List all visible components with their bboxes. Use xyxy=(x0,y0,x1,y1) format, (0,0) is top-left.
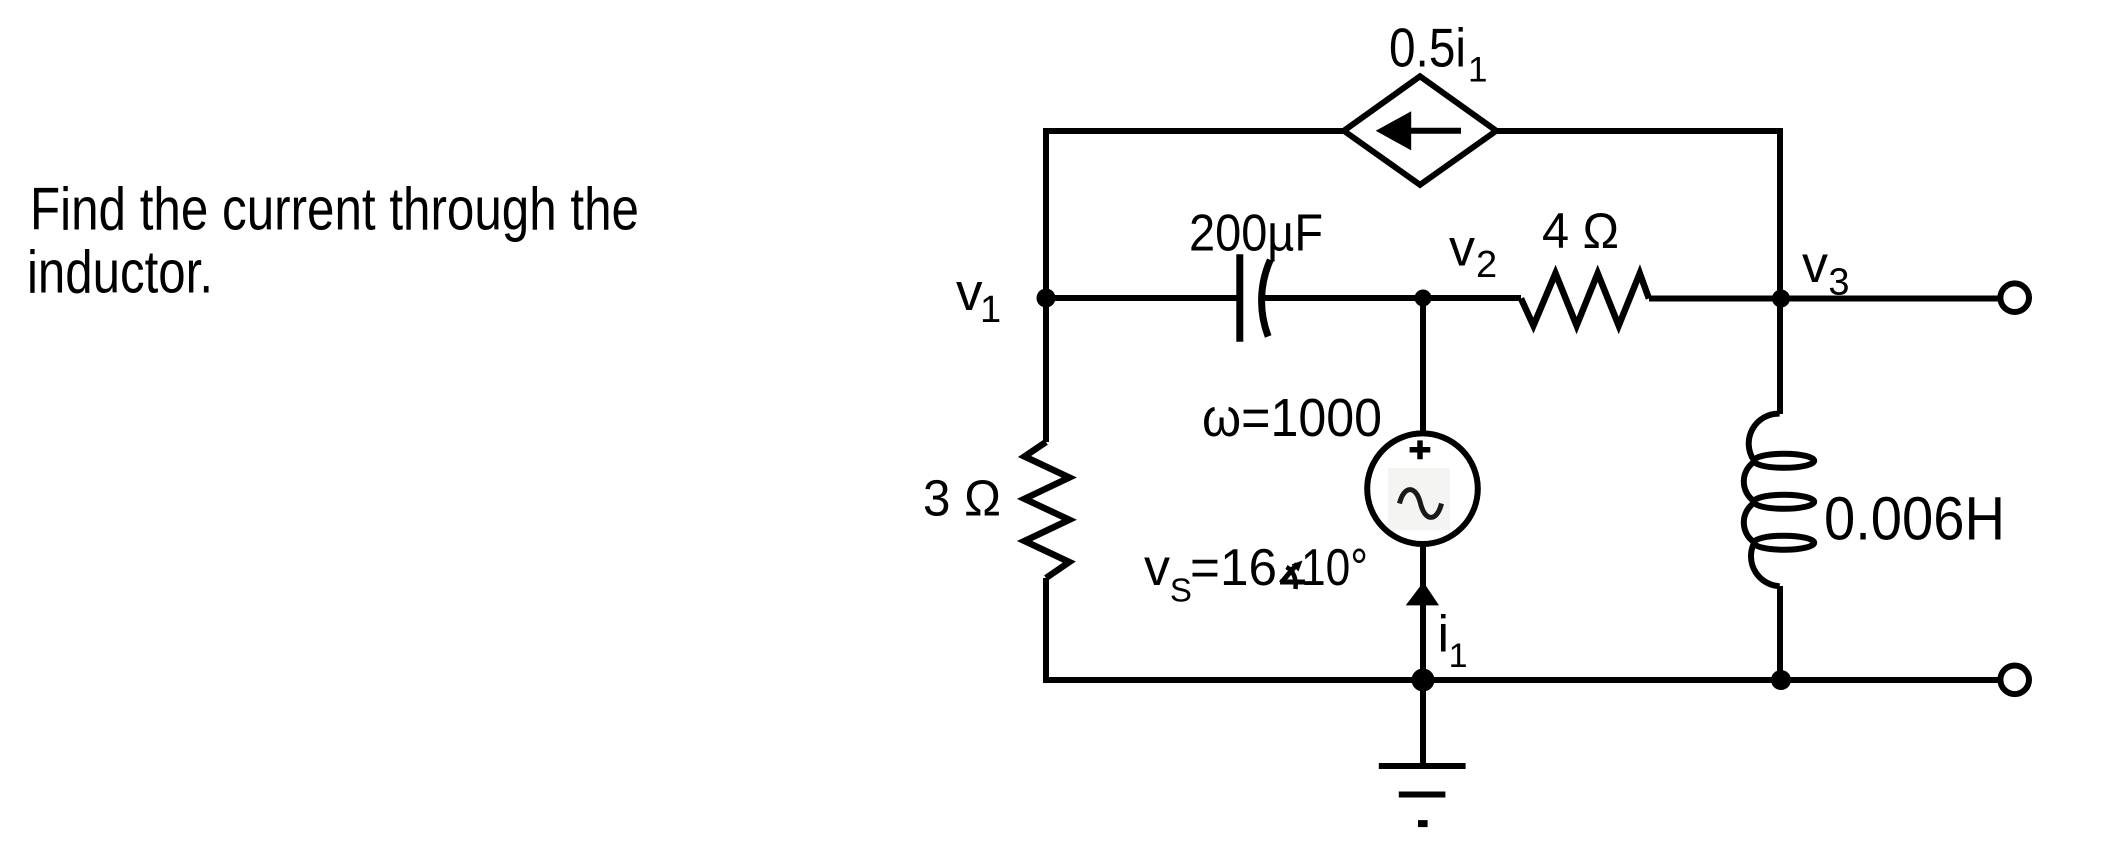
svg-text:v: v xyxy=(1802,236,1828,294)
svg-text:2: 2 xyxy=(1476,244,1497,286)
svg-text:1: 1 xyxy=(980,289,1001,331)
svg-text:v: v xyxy=(956,263,983,322)
svg-text:0.006H: 0.006H xyxy=(1824,485,2005,553)
svg-text:4 Ω: 4 Ω xyxy=(1542,203,1619,259)
svg-text:=16: =16 xyxy=(1190,539,1277,597)
svg-text:Find the current through the: Find the current through the xyxy=(30,176,639,243)
svg-text:3 Ω: 3 Ω xyxy=(923,470,1001,527)
svg-text:i: i xyxy=(1438,606,1450,664)
svg-text:0.5i: 0.5i xyxy=(1389,17,1466,79)
svg-text:3: 3 xyxy=(1828,262,1849,304)
svg-text:1: 1 xyxy=(1468,51,1487,90)
svg-text:10°: 10° xyxy=(1301,539,1368,597)
svg-text:v: v xyxy=(1449,220,1475,278)
svg-text:1: 1 xyxy=(1449,637,1468,675)
svg-text:S: S xyxy=(1170,572,1192,609)
svg-text:v: v xyxy=(1144,539,1170,597)
svg-text:200µF: 200µF xyxy=(1189,205,1323,263)
svg-text:ω=1000: ω=1000 xyxy=(1202,388,1382,448)
svg-text:inductor.: inductor. xyxy=(27,239,213,306)
